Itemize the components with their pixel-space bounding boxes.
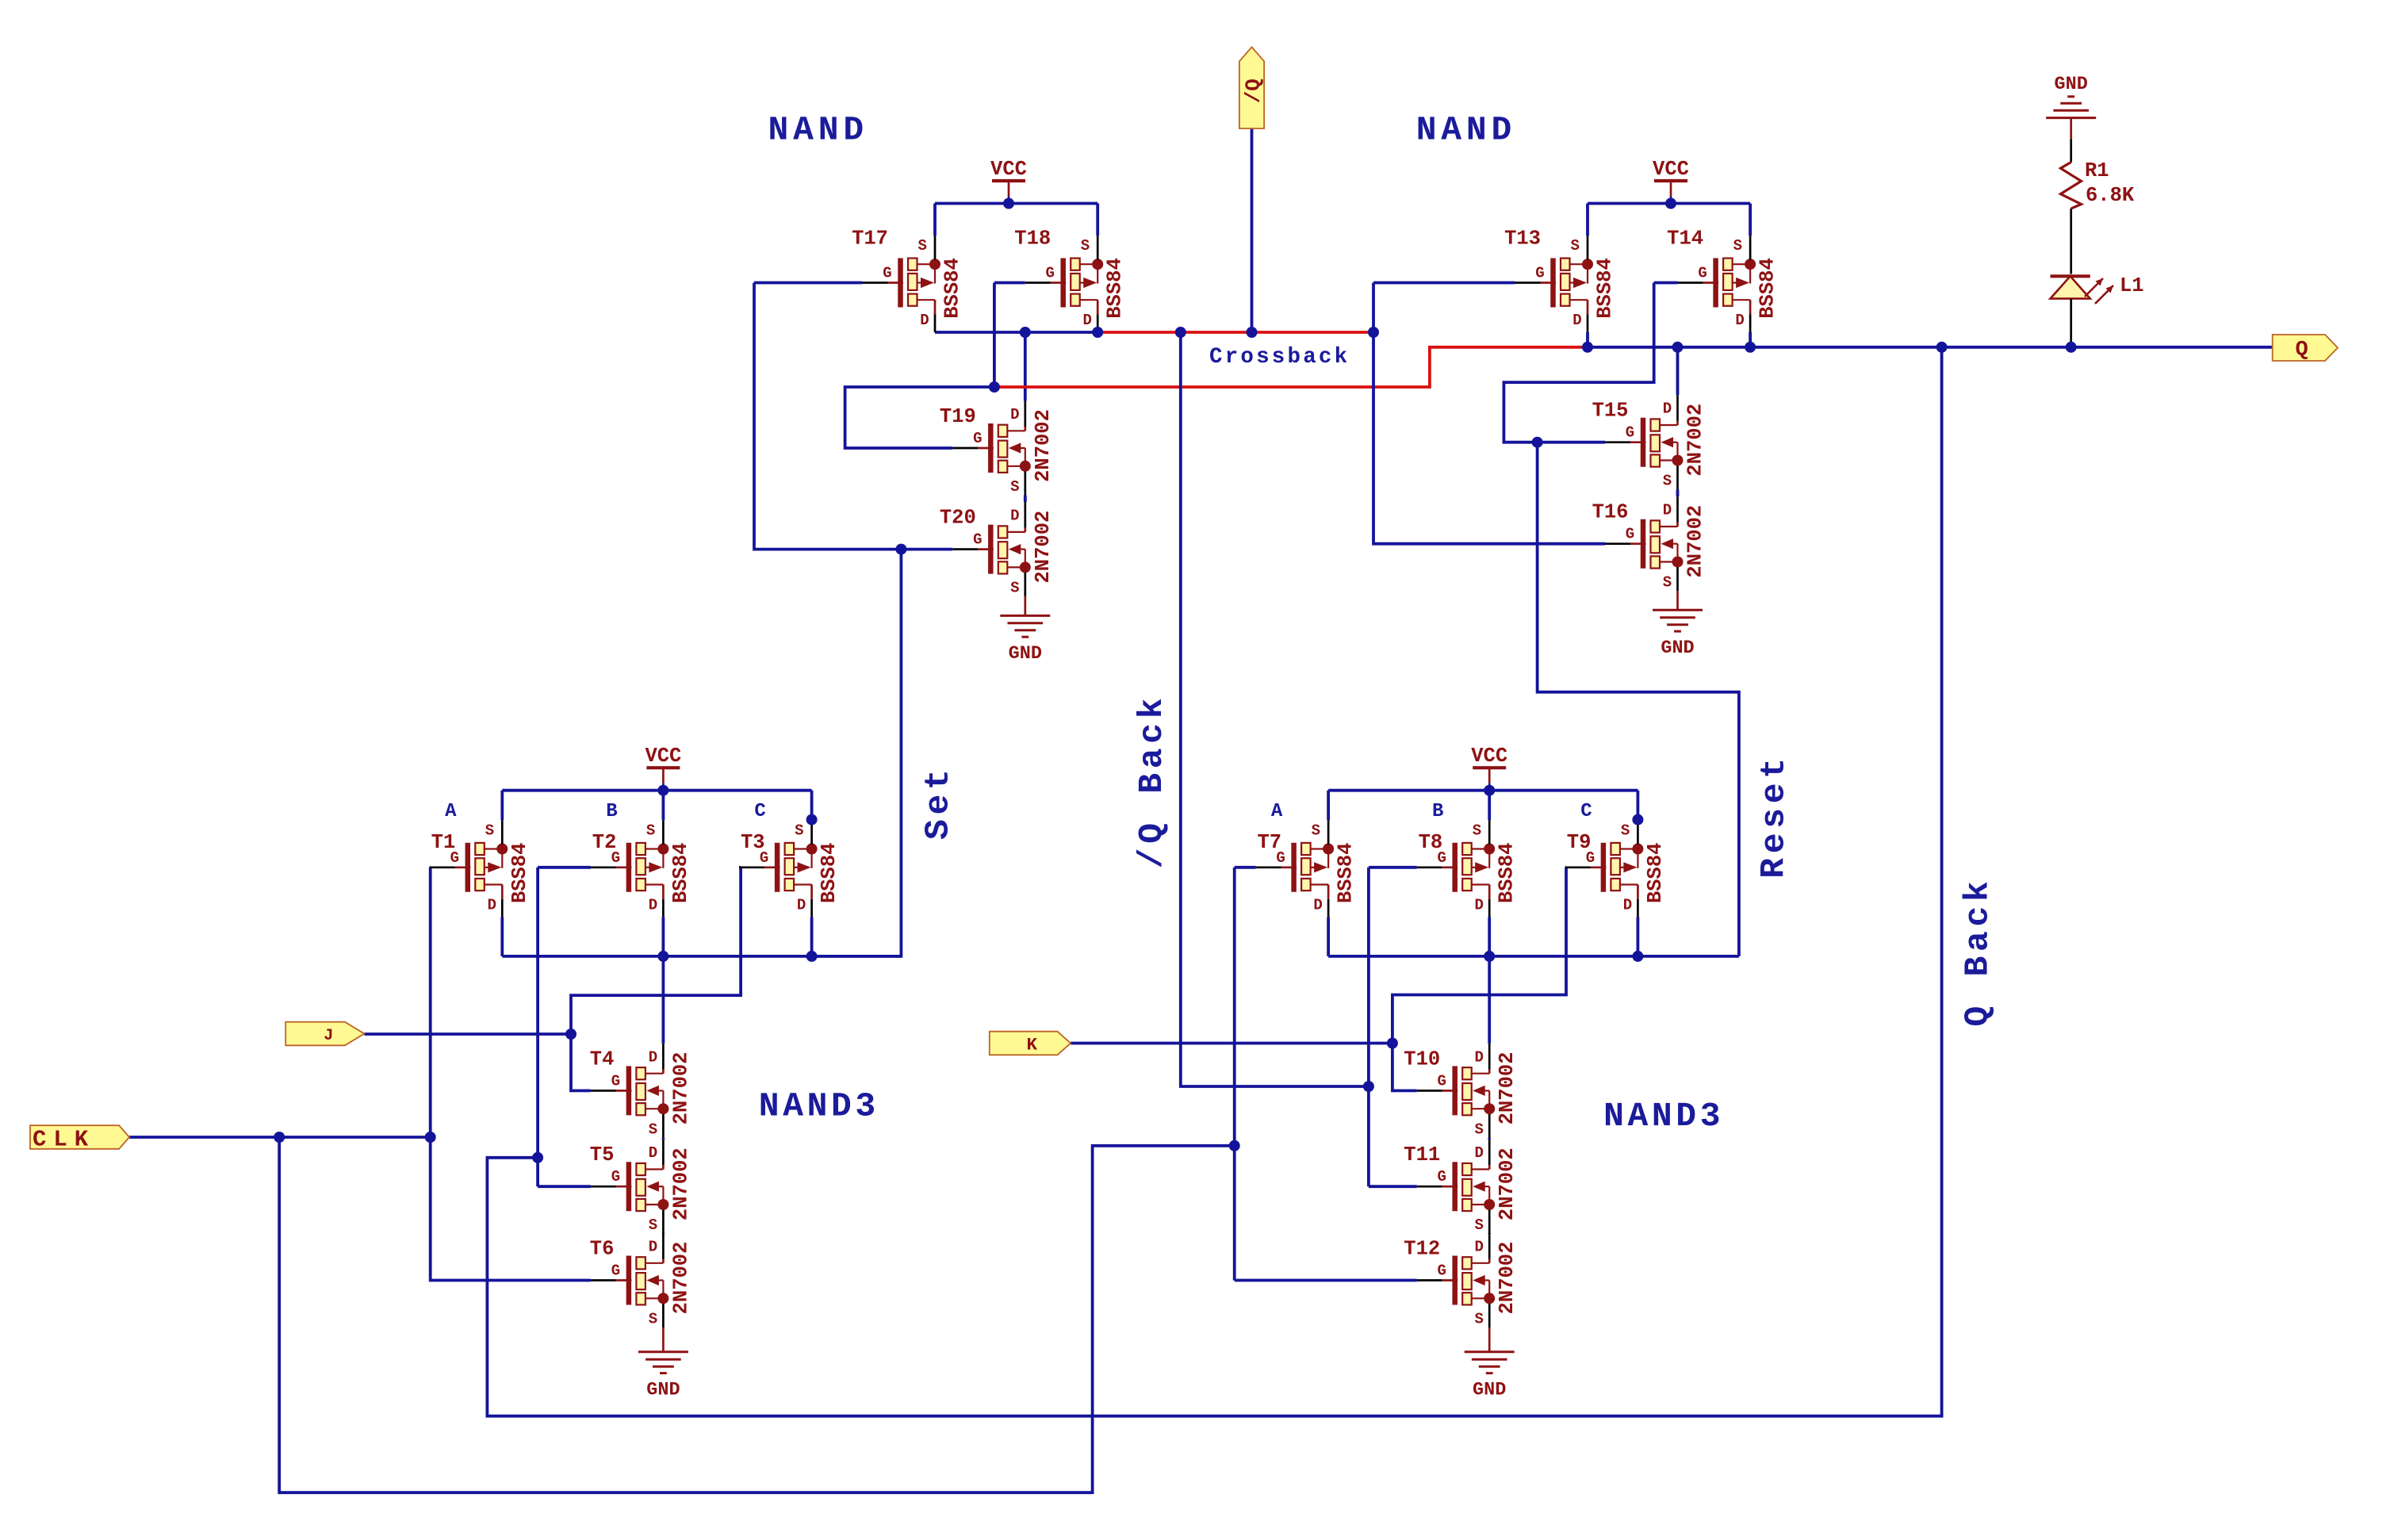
svg-text:BSS84: BSS84 <box>818 843 841 904</box>
svg-text:GND: GND <box>646 1379 680 1400</box>
svg-text:GND: GND <box>1473 1379 1506 1400</box>
svg-text:VCC: VCC <box>1471 745 1507 768</box>
svg-text:S: S <box>917 237 926 255</box>
svg-text:T17: T17 <box>852 228 888 251</box>
svg-text:S: S <box>1621 822 1630 839</box>
svg-text:D: D <box>1474 1144 1483 1162</box>
svg-text:D: D <box>1010 406 1019 423</box>
svg-text:BSS84: BSS84 <box>1104 258 1127 319</box>
svg-text:S: S <box>1663 473 1672 490</box>
svg-text:BSS84: BSS84 <box>508 843 531 904</box>
svg-text:T3: T3 <box>741 831 765 854</box>
svg-text:T8: T8 <box>1419 831 1443 854</box>
svg-text:T15: T15 <box>1592 400 1629 423</box>
svg-text:T18: T18 <box>1014 228 1051 251</box>
svg-text:2N7002: 2N7002 <box>669 1052 692 1124</box>
svg-text:D: D <box>1474 1239 1483 1256</box>
svg-text:S: S <box>485 822 494 839</box>
svg-text:G: G <box>1626 424 1634 442</box>
svg-text:D: D <box>1082 312 1091 329</box>
svg-text:Q: Q <box>2295 339 2308 362</box>
svg-text:T14: T14 <box>1667 228 1703 251</box>
svg-text:S: S <box>646 822 655 839</box>
svg-text:D: D <box>649 1239 657 1256</box>
svg-text:D: D <box>1663 400 1672 418</box>
svg-text:D: D <box>1735 312 1744 329</box>
svg-text:G: G <box>973 430 982 447</box>
svg-text:J: J <box>324 1027 333 1045</box>
svg-text:D: D <box>649 896 657 914</box>
svg-text:T20: T20 <box>940 507 976 530</box>
svg-text:BSS84: BSS84 <box>669 843 692 904</box>
svg-text:S: S <box>1474 1311 1483 1328</box>
svg-text:D: D <box>1474 1048 1483 1066</box>
svg-text:S: S <box>1733 237 1742 255</box>
svg-text:CLK: CLK <box>33 1126 95 1152</box>
svg-text:B: B <box>606 801 617 822</box>
svg-text:2N7002: 2N7002 <box>1684 404 1707 477</box>
svg-text:K: K <box>1027 1035 1038 1055</box>
svg-text:G: G <box>611 1262 620 1280</box>
svg-text:T9: T9 <box>1567 831 1592 854</box>
svg-text:D: D <box>1313 896 1322 914</box>
svg-text:GND: GND <box>1009 643 1042 665</box>
svg-text:A: A <box>445 801 457 822</box>
svg-text:2N7002: 2N7002 <box>1684 505 1707 578</box>
svg-text:D: D <box>1572 312 1581 329</box>
svg-text:T10: T10 <box>1404 1048 1440 1071</box>
svg-text:S: S <box>795 822 803 839</box>
svg-text:S: S <box>1474 1121 1483 1138</box>
svg-text:G: G <box>1698 265 1707 282</box>
svg-text:S: S <box>1474 1216 1483 1234</box>
svg-text:NAND: NAND <box>768 111 868 150</box>
svg-text:Crossback: Crossback <box>1209 345 1350 370</box>
svg-text:T2: T2 <box>592 831 617 854</box>
svg-text:R1: R1 <box>2085 159 2109 182</box>
svg-text:GND: GND <box>1661 638 1694 659</box>
svg-text:T19: T19 <box>940 405 976 428</box>
svg-text:L1: L1 <box>2120 274 2144 297</box>
svg-text:G: G <box>1535 265 1544 282</box>
svg-text:S: S <box>649 1121 657 1138</box>
svg-text:2N7002: 2N7002 <box>1496 1147 1519 1220</box>
svg-text:BSS84: BSS84 <box>1335 843 1358 904</box>
svg-text:/Q: /Q <box>1242 79 1266 103</box>
svg-text:C: C <box>754 801 765 822</box>
svg-text:T1: T1 <box>431 831 456 854</box>
svg-text:G: G <box>1437 1262 1446 1280</box>
svg-text:D: D <box>649 1048 657 1066</box>
svg-text:T5: T5 <box>590 1144 615 1166</box>
svg-text:S: S <box>1010 580 1019 597</box>
svg-text:T4: T4 <box>590 1048 615 1071</box>
svg-text:GND: GND <box>2055 74 2088 95</box>
svg-text:A: A <box>1271 801 1283 822</box>
svg-text:2N7002: 2N7002 <box>669 1242 692 1315</box>
svg-text:D: D <box>1623 896 1632 914</box>
svg-text:G: G <box>1437 1072 1446 1090</box>
svg-text:/Q Back: /Q Back <box>1132 694 1171 869</box>
svg-text:NAND3: NAND3 <box>759 1086 879 1125</box>
svg-text:D: D <box>1010 508 1019 525</box>
svg-text:2N7002: 2N7002 <box>1496 1242 1519 1315</box>
svg-text:G: G <box>611 1168 620 1186</box>
svg-text:BSS84: BSS84 <box>1756 258 1779 319</box>
svg-text:C: C <box>1580 801 1592 822</box>
svg-text:T6: T6 <box>590 1238 615 1261</box>
svg-text:S: S <box>649 1311 657 1328</box>
svg-text:2N7002: 2N7002 <box>669 1147 692 1220</box>
svg-text:D: D <box>488 896 496 914</box>
svg-text:G: G <box>1626 526 1634 543</box>
svg-text:T16: T16 <box>1592 501 1629 524</box>
svg-text:Set: Set <box>918 765 957 841</box>
svg-text:G: G <box>1437 1168 1446 1186</box>
svg-text:BSS84: BSS84 <box>941 258 964 319</box>
svg-text:T11: T11 <box>1404 1144 1440 1166</box>
svg-text:G: G <box>883 265 891 282</box>
svg-text:B: B <box>1432 801 1443 822</box>
svg-text:T13: T13 <box>1504 228 1541 251</box>
svg-text:BSS84: BSS84 <box>1496 843 1519 904</box>
svg-text:BSS84: BSS84 <box>1644 843 1667 904</box>
svg-text:VCC: VCC <box>645 745 681 768</box>
svg-text:D: D <box>649 1144 657 1162</box>
svg-text:2N7002: 2N7002 <box>1496 1052 1519 1124</box>
svg-text:G: G <box>1045 265 1054 282</box>
svg-text:D: D <box>920 312 929 329</box>
svg-text:2N7002: 2N7002 <box>1032 511 1055 584</box>
svg-text:6.8K: 6.8K <box>2086 184 2135 207</box>
svg-text:S: S <box>1663 574 1672 592</box>
svg-text:Reset: Reset <box>1755 753 1794 879</box>
svg-text:T7: T7 <box>1257 831 1281 854</box>
svg-text:VCC: VCC <box>1653 158 1689 181</box>
svg-text:S: S <box>1312 822 1320 839</box>
svg-text:Q Back: Q Back <box>1959 876 1998 1026</box>
svg-text:S: S <box>1010 478 1019 496</box>
svg-text:G: G <box>973 531 982 549</box>
svg-text:S: S <box>1473 822 1481 839</box>
svg-text:NAND3: NAND3 <box>1603 1097 1724 1136</box>
svg-text:2N7002: 2N7002 <box>1032 409 1055 482</box>
svg-text:BSS84: BSS84 <box>1594 258 1617 319</box>
svg-text:D: D <box>1474 896 1483 914</box>
svg-text:G: G <box>611 1072 620 1090</box>
svg-text:D: D <box>1663 502 1672 519</box>
svg-text:S: S <box>1081 237 1090 255</box>
svg-text:D: D <box>797 896 806 914</box>
svg-text:S: S <box>1570 237 1579 255</box>
svg-text:T12: T12 <box>1404 1238 1440 1261</box>
svg-text:VCC: VCC <box>990 158 1027 181</box>
svg-text:NAND: NAND <box>1416 111 1516 150</box>
svg-text:S: S <box>649 1216 657 1234</box>
